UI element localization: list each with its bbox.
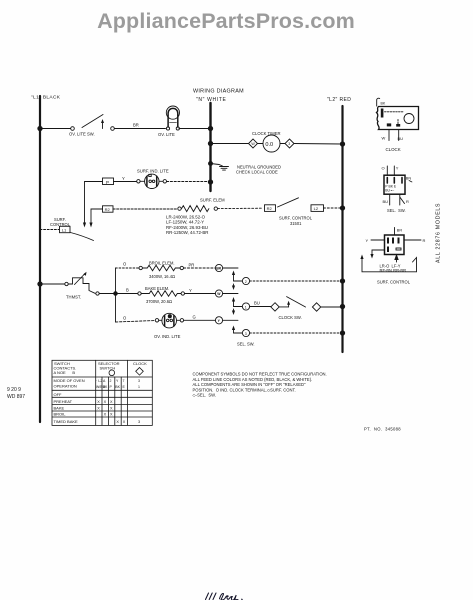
svg-text:X: X [110, 412, 113, 416]
loop wire left [372, 250, 385, 257]
junction dot L2/clock-timer row [340, 142, 344, 146]
wire to oven indicator light (O) [116, 321, 156, 323]
svg-text:BK: BK [103, 385, 108, 389]
wire terminal 3 to L2 bus [250, 332, 341, 334]
lead Y [393, 166, 395, 175]
svg-text:PR: PR [189, 263, 195, 268]
wire clock timer to L2 bus [294, 143, 342, 146]
svg-text:3700W, 20.6Ω: 3700W, 20.6Ω [146, 299, 172, 304]
svg-text:31501: 31501 [290, 221, 302, 226]
svg-text:BU·•−: BU·•− [385, 189, 394, 193]
junction dot L1/row1 [38, 126, 42, 130]
svg-text:BAKE ELEM.: BAKE ELEM. [145, 286, 169, 291]
note component symbols block [193, 372, 327, 398]
svg-text:1: 1 [245, 305, 247, 309]
switch surf control blade [278, 198, 299, 207]
svg-text:BROIL ELEM.: BROIL ELEM. [149, 260, 175, 265]
node junction (oven feed) [114, 292, 118, 296]
wire with Y label [114, 181, 137, 183]
table verticals [95, 360, 97, 425]
selector switch clock terminal W [215, 290, 222, 297]
lead BU [389, 194, 391, 205]
signature mark (bottom) [206, 593, 243, 600]
clock lead W [388, 130, 390, 141]
clock case outline [377, 107, 419, 130]
svg-text:OV. IND. LITE: OV. IND. LITE [154, 334, 181, 339]
lead Y (left) [371, 239, 385, 241]
svg-text:B: B [126, 288, 129, 293]
svg-text:PT. NO. 345088: PT. NO. 345088 [364, 427, 401, 432]
svg-text:CLOCK: CLOCK [386, 147, 401, 152]
svg-text:X: X [116, 420, 119, 424]
svg-text:WD 897: WD 897 [7, 394, 25, 400]
svg-text:3400W, 16.4Ω: 3400W, 16.4Ω [149, 274, 175, 279]
svg-text:Y: Y [122, 176, 125, 181]
svg-text:1: 1 [138, 385, 140, 389]
mode of operation table [52, 360, 152, 425]
svg-text:O: O [382, 166, 385, 171]
selector terminal 3 [242, 329, 249, 336]
junction dot N/surf-ind row [208, 180, 212, 184]
wire clock switch to L2 bus [321, 306, 341, 308]
svg-text:X: X [110, 400, 113, 404]
loop wire bottom [362, 258, 417, 272]
svg-text:A: A [103, 379, 106, 383]
wire lamp to N bus [167, 181, 211, 183]
bus L1 (black feed line) [39, 96, 41, 422]
svg-text:OFF: OFF [54, 392, 63, 397]
svg-text:OV. LITE SW.: OV. LITE SW. [69, 132, 95, 137]
switch surf control blade (left) [71, 233, 94, 241]
lamp OV. LITE [158, 106, 179, 137]
resistor broil element [139, 260, 184, 279]
junction dot N/clock-timer row [208, 141, 212, 145]
wire to bake element (B) [116, 293, 138, 295]
wire with BR label [115, 128, 166, 130]
svg-text:L1: L1 [62, 228, 67, 233]
lamp SURF. IND. LITE [137, 174, 167, 188]
svg-text:LF-1250W, 44.72-Y: LF-1250W, 44.72-Y [166, 220, 204, 225]
junction dot L2/row3 [340, 331, 344, 335]
svg-text:W: W [217, 292, 221, 296]
svg-text:P: P [110, 385, 113, 389]
lead O [386, 166, 388, 175]
wire from R2 box left, down to surf control contact (arrow) [91, 209, 103, 226]
svg-text:A NOE B: A NOE B [54, 370, 76, 375]
svg-text:BU: BU [254, 301, 260, 306]
wire row1 from L1 to oven light switch [40, 128, 71, 130]
switch CLOCK SW. [271, 297, 321, 320]
terminal diamond 3 [285, 139, 294, 148]
svg-text:O: O [123, 262, 127, 267]
svg-text:3: 3 [288, 142, 290, 146]
table outer box [52, 360, 152, 425]
svg-text:SEL. SW.: SEL. SW. [387, 208, 406, 213]
lead BR (top) [394, 228, 396, 236]
svg-text:· L2: · L2 [96, 379, 102, 383]
svg-text:ALL FEED LINE COLORS AS NOTED: ALL FEED LINE COLORS AS NOTED (RED, BLAC… [193, 377, 313, 382]
svg-text:ALL 22876 MODELS: ALL 22876 MODELS [436, 203, 442, 263]
svg-text:P: P [106, 180, 109, 185]
clock face [404, 114, 414, 124]
switch OV. LITE SW. [69, 115, 114, 137]
svg-text:BK: BK [115, 385, 120, 389]
svg-text:◇-SEL. SW.: ◇-SEL. SW. [193, 393, 216, 398]
svg-text:SURF. CONTROL: SURF. CONTROL [377, 280, 411, 285]
selector contact bar segment 3 [232, 326, 242, 334]
svg-text:9 20 9: 9 20 9 [7, 387, 21, 393]
selector switch figure (middle right) [382, 166, 413, 213]
svg-text:"L1" BLACK: "L1" BLACK [31, 95, 61, 101]
terminal circle after thermostat [96, 292, 99, 295]
selector contact bar segment 1 [232, 271, 242, 291]
svg-text:COMPONENT SYMBOLS DO NOT REFLE: COMPONENT SYMBOLS DO NOT REFLECT TRUE CO… [193, 372, 327, 377]
clock motor hatch [381, 109, 384, 118]
svg-text:AppliancePartsPros.com: AppliancePartsPros.com [97, 9, 355, 33]
svg-text:L2: L2 [314, 206, 319, 211]
svg-text:0.0: 0.0 [265, 142, 273, 148]
svg-text:BR: BR [216, 267, 221, 271]
svg-text:BAKE: BAKE [54, 405, 65, 410]
wire L2 box to L2 bus [324, 207, 342, 209]
svg-text:SWITCH: SWITCH [100, 365, 116, 370]
wire terminal 2 to L2 bus [250, 280, 341, 282]
surf control body [385, 235, 405, 255]
svg-text:PREHEAT: PREHEAT [54, 399, 73, 404]
svg-text:CLOCK TIMER: CLOCK TIMER [252, 131, 281, 136]
svg-text:RF-BN RR-BR: RF-BN RR-BR [380, 268, 407, 273]
wire from P box left, down to surf control contact (arrow) [85, 182, 103, 226]
wire R2 box to surface element [113, 208, 178, 210]
wire vertical branch [115, 268, 117, 322]
svg-text:OPERATION: OPERATION [54, 384, 77, 389]
svg-text:2: 2 [245, 280, 247, 284]
clock top lead [377, 98, 380, 106]
resistor surface element [178, 207, 181, 210]
clock lead BU [398, 130, 400, 141]
sel sw body [384, 175, 405, 194]
svg-text:7: 7 [123, 379, 125, 383]
junction dot N/ground [209, 162, 213, 166]
svg-text:SEL. SW.: SEL. SW. [237, 342, 255, 347]
svg-text:Y: Y [116, 379, 119, 383]
svg-text:ALL COMPONENTS ARE SHOWN IN "O: ALL COMPONENTS ARE SHOWN IN "OFF" OR "RE… [193, 382, 306, 387]
clock assembly figure (top right) [377, 98, 419, 152]
table horizontals [52, 376, 152, 378]
lead R (right) [404, 239, 421, 241]
bus N (neutral white) [209, 103, 211, 191]
svg-text:BK: BK [381, 102, 386, 106]
terminal diamond W [249, 139, 258, 148]
svg-text:X: X [97, 400, 100, 404]
svg-text:O: O [123, 316, 127, 321]
svg-text:CLOCK: CLOCK [133, 361, 147, 366]
svg-text:G: G [193, 315, 196, 320]
svg-text:CLOCK SW.: CLOCK SW. [279, 315, 302, 320]
svg-text:BR: BR [133, 123, 139, 128]
wire to broil element (O) [116, 267, 139, 269]
svg-text:TIMED BAKE: TIMED BAKE [54, 419, 79, 424]
resistor bake element [138, 286, 185, 304]
svg-text:MODE OF OVEN: MODE OF OVEN [54, 378, 85, 383]
svg-text:"L2" RED: "L2" RED [327, 97, 351, 103]
svg-text:R: R [406, 199, 409, 204]
junction dot L1/thermostat row [38, 282, 42, 286]
svg-text:X: X [123, 420, 126, 424]
wire BU to clock switch [250, 306, 271, 308]
lead R [400, 194, 405, 205]
svg-text:POSITION. O IND. CLOCK TERMIN: POSITION. O IND. CLOCK TERMINAL.◇SURF. C… [193, 387, 296, 392]
thermostat THMST. [65, 272, 95, 300]
svg-text:X: X [104, 400, 107, 404]
junction dot L2/surf-control row [340, 206, 344, 210]
svg-text:X: X [97, 406, 100, 410]
wire lamp to N bus [179, 128, 210, 130]
junction dot N/row1 [208, 126, 212, 130]
wire L1 bus to L1 box [40, 229, 59, 231]
terminal box R2 (surf control) [265, 205, 276, 212]
svg-text:Y: Y [396, 166, 399, 171]
selector terminal 1 [242, 303, 249, 310]
surf control figure (lower right) [360, 228, 425, 285]
terminal box R2 [103, 206, 114, 212]
ground (neutral grounded) [211, 164, 282, 175]
svg-text:3: 3 [245, 332, 247, 336]
svg-text:BROIL: BROIL [54, 411, 67, 416]
selector switch clock terminal BR [215, 264, 222, 271]
svg-text:E: E [123, 385, 126, 389]
pin bars [386, 178, 388, 184]
wire N bus to clock timer [211, 143, 249, 145]
svg-text:R2: R2 [267, 206, 273, 211]
selector terminal 2 [242, 277, 249, 284]
svg-text:2: 2 [110, 379, 112, 383]
svg-text:R2: R2 [105, 207, 111, 212]
wire L1 to thermostat [40, 283, 65, 285]
svg-text:W: W [251, 142, 255, 146]
wire element to surf control switch [218, 207, 264, 209]
junction dot L2/clock-sw row [340, 304, 344, 308]
svg-text:Y: Y [189, 288, 192, 293]
svg-text:Y: Y [366, 238, 369, 243]
svg-text:SURF. CONTROL: SURF. CONTROL [279, 216, 313, 221]
svg-text:X: X [110, 406, 113, 410]
pin bars inside [387, 238, 389, 244]
svg-text:BR: BR [397, 229, 403, 233]
svg-text:3: 3 [138, 420, 140, 424]
svg-text:CHECK LOCAL CODE: CHECK LOCAL CODE [236, 170, 278, 175]
terminal box L1 [60, 226, 71, 232]
svg-text:X: X [104, 412, 107, 416]
wire to junction node [99, 293, 114, 295]
svg-text:3: 3 [138, 379, 140, 383]
svg-text:SURF. IND. LITE: SURF. IND. LITE [137, 168, 169, 173]
svg-text:BN: BN [406, 177, 412, 181]
svg-text:Y: Y [218, 319, 221, 323]
clock timer motor (circle 0.0) [258, 143, 264, 145]
svg-text:BU: BU [398, 136, 404, 141]
svg-text:WIRING DIAGRAM: WIRING DIAGRAM [193, 89, 244, 95]
terminal box P [103, 178, 114, 185]
svg-text:THMST.: THMST. [66, 295, 81, 300]
svg-text:OV. LITE: OV. LITE [158, 132, 175, 137]
svg-text:BU: BU [383, 199, 389, 204]
svg-text:W: W [382, 136, 386, 141]
junction dot L2/row2 [340, 279, 344, 283]
selector switch clock terminal Y [215, 317, 222, 324]
terminal box L2 (surf control) [311, 205, 324, 212]
lamp OV. IND. LITE [154, 313, 184, 338]
selector contact bar segment 2 [232, 297, 242, 315]
svg-text:RR-1250W, 44.72-BR: RR-1250W, 44.72-BR [166, 230, 208, 235]
clock terminal blocks [387, 123, 391, 126]
svg-text:R: R [423, 238, 426, 243]
bus L2 (red feed line) [341, 106, 343, 352]
svg-text:SURF. ELEM: SURF. ELEM [200, 198, 225, 203]
